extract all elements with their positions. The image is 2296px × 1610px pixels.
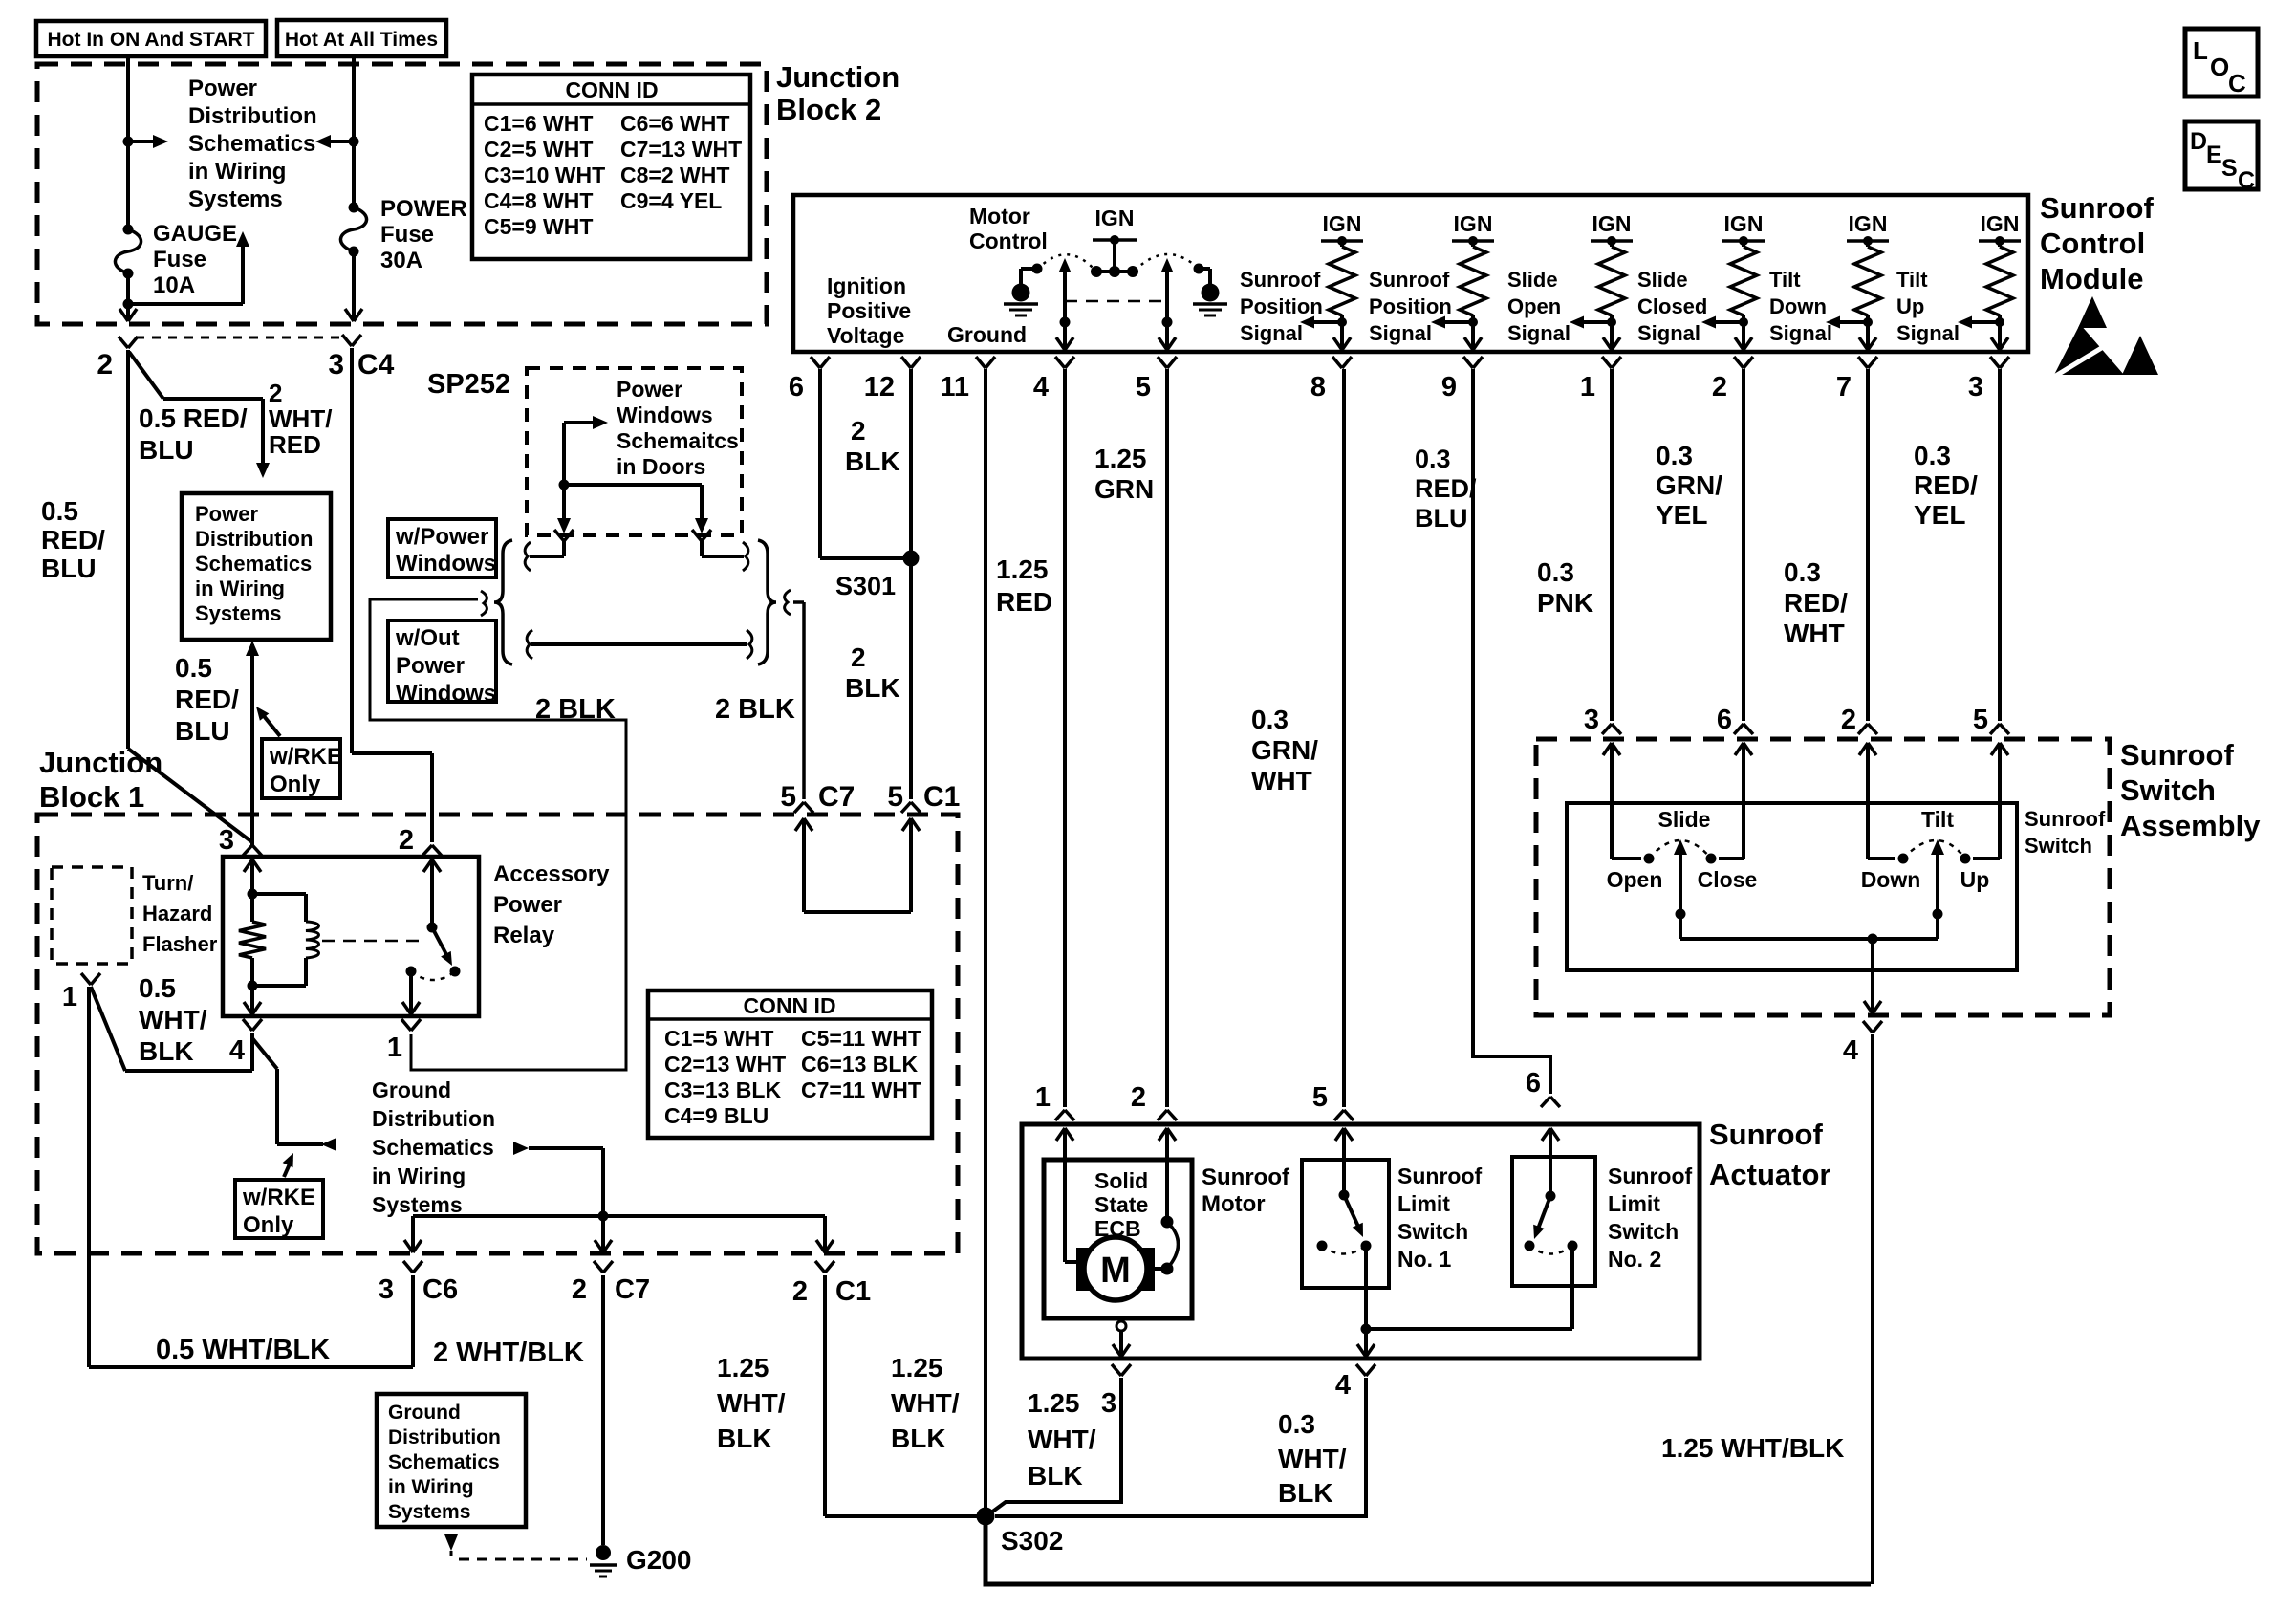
svg-text:WHT/: WHT/ (1028, 1425, 1096, 1454)
svg-text:Ground: Ground (388, 1402, 461, 1424)
svg-text:SP252: SP252 (427, 369, 510, 400)
svg-text:Windows: Windows (617, 402, 713, 427)
svg-text:Ignition: Ignition (827, 273, 906, 298)
svg-text:2: 2 (1841, 705, 1856, 735)
svg-text:Switch: Switch (2120, 773, 2216, 807)
svg-text:w/Power: w/Power (395, 524, 488, 550)
svg-text:BLK: BLK (1028, 1461, 1083, 1490)
svg-text:Fuse: Fuse (153, 247, 206, 272)
svg-text:C8=2 WHT: C8=2 WHT (620, 163, 729, 187)
svg-text:C7=13 WHT: C7=13 WHT (620, 137, 742, 162)
svg-text:1: 1 (1035, 1082, 1051, 1113)
svg-text:Schematics: Schematics (195, 552, 312, 576)
svg-text:C2=13 WHT: C2=13 WHT (664, 1052, 786, 1077)
svg-text:State: State (1094, 1192, 1148, 1217)
svg-text:Positive: Positive (827, 298, 911, 323)
svg-text:BLK: BLK (845, 673, 900, 703)
svg-text:Systems: Systems (372, 1192, 463, 1217)
svg-text:C1=5 WHT: C1=5 WHT (664, 1026, 773, 1051)
svg-text:Sunroof: Sunroof (2025, 807, 2106, 831)
svg-text:4: 4 (1843, 1035, 1858, 1066)
svg-text:WHT/: WHT/ (717, 1388, 786, 1418)
svg-text:2: 2 (792, 1276, 808, 1307)
svg-text:12: 12 (864, 372, 895, 402)
svg-text:C: C (2228, 69, 2246, 98)
svg-text:6: 6 (1526, 1068, 1541, 1099)
svg-text:Up: Up (1896, 294, 1924, 318)
svg-text:2: 2 (851, 642, 866, 672)
svg-text:YEL: YEL (1656, 500, 1707, 530)
svg-text:Slide: Slide (1637, 268, 1688, 292)
svg-text:0.3: 0.3 (1251, 705, 1289, 734)
svg-text:WHT/: WHT/ (269, 404, 332, 433)
svg-text:1: 1 (387, 1033, 402, 1063)
svg-text:Down: Down (1769, 294, 1827, 318)
svg-text:Only: Only (243, 1212, 294, 1238)
svg-text:Ground: Ground (947, 322, 1027, 347)
svg-text:0.3: 0.3 (1914, 441, 1951, 470)
svg-text:IGN: IGN (1454, 211, 1493, 236)
svg-text:WHT: WHT (1784, 619, 1845, 648)
svg-text:w/RKE: w/RKE (242, 1185, 315, 1210)
svg-text:RED/: RED/ (1784, 588, 1848, 618)
svg-text:Slide: Slide (1507, 268, 1558, 292)
svg-text:Open: Open (1607, 867, 1663, 892)
svg-text:Schematics: Schematics (188, 131, 315, 157)
svg-text:BLU: BLU (139, 435, 194, 465)
svg-text:5: 5 (1312, 1082, 1328, 1113)
svg-text:Systems: Systems (188, 186, 283, 212)
svg-text:Switch: Switch (1608, 1219, 1679, 1244)
svg-text:9: 9 (1441, 372, 1457, 402)
svg-text:Closed: Closed (1637, 294, 1707, 318)
svg-text:1.25: 1.25 (1094, 444, 1147, 473)
svg-text:0.5: 0.5 (41, 496, 78, 526)
svg-text:GRN/: GRN/ (1656, 470, 1722, 500)
svg-text:D: D (2190, 128, 2207, 155)
svg-text:1.25: 1.25 (717, 1353, 769, 1382)
svg-text:w/RKE: w/RKE (269, 744, 342, 770)
svg-text:Distribution: Distribution (188, 103, 317, 129)
svg-text:1.25: 1.25 (1028, 1388, 1080, 1418)
svg-text:Sunroof: Sunroof (1397, 1164, 1482, 1188)
svg-text:6: 6 (789, 372, 804, 402)
svg-text:Sunroof: Sunroof (1369, 268, 1450, 292)
svg-text:BLU: BLU (1415, 504, 1468, 533)
svg-text:3: 3 (328, 349, 344, 381)
svg-text:in Doors: in Doors (617, 454, 705, 479)
svg-text:IGN: IGN (1724, 211, 1764, 236)
svg-text:in Wiring: in Wiring (372, 1164, 466, 1188)
svg-text:C7: C7 (615, 1274, 650, 1305)
svg-text:5: 5 (780, 781, 796, 813)
svg-text:C1: C1 (835, 1276, 871, 1307)
svg-text:Switch: Switch (1397, 1219, 1468, 1244)
svg-text:Signal: Signal (1896, 321, 1960, 345)
svg-text:Only: Only (270, 772, 321, 797)
svg-text:Schematics: Schematics (388, 1451, 500, 1473)
svg-text:Tilt: Tilt (1769, 268, 1801, 292)
svg-text:IGN: IGN (1095, 206, 1135, 230)
svg-text:2: 2 (97, 349, 113, 381)
svg-text:Schemaitcs: Schemaitcs (617, 428, 739, 453)
svg-text:4: 4 (1335, 1370, 1351, 1401)
svg-text:IGN: IGN (1981, 211, 2020, 236)
svg-text:Signal: Signal (1507, 321, 1570, 345)
svg-text:3: 3 (1968, 372, 1983, 402)
svg-text:Module: Module (2040, 262, 2144, 295)
svg-text:C7=11 WHT: C7=11 WHT (801, 1077, 921, 1102)
svg-text:IGN: IGN (1849, 211, 1888, 236)
svg-text:GRN/: GRN/ (1251, 735, 1318, 765)
svg-text:Distribution: Distribution (372, 1106, 495, 1131)
svg-text:Power: Power (396, 653, 465, 679)
svg-text:Position: Position (1369, 294, 1452, 318)
svg-text:C5=11 WHT: C5=11 WHT (801, 1026, 921, 1051)
svg-text:C6: C6 (422, 1274, 458, 1305)
svg-text:WHT: WHT (1251, 766, 1312, 795)
svg-text:Hazard: Hazard (142, 902, 212, 925)
svg-text:in Wiring: in Wiring (195, 577, 285, 600)
svg-text:IGN: IGN (1592, 211, 1632, 236)
svg-text:Limit: Limit (1397, 1191, 1450, 1216)
svg-text:Tilt: Tilt (1921, 807, 1954, 832)
svg-text:Signal: Signal (1637, 321, 1700, 345)
svg-text:Power: Power (195, 502, 258, 526)
svg-text:RED: RED (996, 587, 1052, 617)
svg-text:0.3: 0.3 (1537, 557, 1574, 587)
svg-text:C: C (2238, 167, 2255, 194)
svg-text:Power: Power (617, 377, 682, 402)
svg-text:RED/: RED/ (1415, 474, 1477, 503)
svg-text:Sunroof: Sunroof (1608, 1164, 1692, 1188)
svg-text:0.3: 0.3 (1784, 557, 1821, 587)
svg-text:3: 3 (1101, 1388, 1116, 1419)
svg-text:BLU: BLU (175, 716, 230, 746)
svg-text:Close: Close (1698, 867, 1758, 892)
svg-text:3: 3 (219, 825, 234, 856)
svg-text:2: 2 (572, 1274, 587, 1305)
svg-text:Signal: Signal (1769, 321, 1832, 345)
svg-text:6: 6 (1717, 705, 1732, 735)
svg-text:C4=8 WHT: C4=8 WHT (484, 188, 593, 213)
svg-text:Open: Open (1507, 294, 1561, 318)
svg-text:Hot At All Times: Hot At All Times (285, 29, 438, 51)
svg-text:GRN: GRN (1094, 474, 1154, 504)
svg-text:Windows: Windows (396, 681, 496, 707)
svg-text:0.3: 0.3 (1415, 445, 1451, 473)
svg-text:Distribution: Distribution (195, 527, 313, 551)
svg-text:0.5: 0.5 (175, 653, 212, 683)
svg-text:C5=9 WHT: C5=9 WHT (484, 214, 593, 239)
svg-text:S: S (2221, 155, 2238, 182)
svg-text:BLK: BLK (845, 446, 900, 476)
svg-text:Distribution: Distribution (388, 1426, 501, 1448)
svg-text:1.25 WHT/BLK: 1.25 WHT/BLK (1661, 1433, 1844, 1463)
svg-text:Position: Position (1240, 294, 1323, 318)
svg-text:O: O (2210, 53, 2229, 81)
svg-text:C7: C7 (818, 781, 855, 813)
svg-text:S302: S302 (1001, 1526, 1063, 1556)
svg-text:YEL: YEL (1914, 500, 1965, 530)
svg-text:Actuator: Actuator (1709, 1158, 1830, 1191)
svg-text:BLK: BLK (139, 1036, 194, 1066)
svg-text:Windows: Windows (396, 551, 496, 577)
svg-text:Up: Up (1960, 867, 1990, 892)
svg-text:0.3: 0.3 (1278, 1409, 1315, 1439)
svg-text:RED/: RED/ (175, 685, 239, 714)
svg-text:GAUGE: GAUGE (153, 221, 237, 247)
svg-text:C6=13 BLK: C6=13 BLK (801, 1052, 918, 1077)
svg-text:3: 3 (1584, 705, 1599, 735)
svg-text:4: 4 (229, 1035, 245, 1066)
svg-text:0.5: 0.5 (139, 973, 176, 1003)
svg-text:Signal: Signal (1240, 321, 1303, 345)
svg-text:2: 2 (399, 825, 414, 856)
svg-text:Sunroof: Sunroof (2040, 191, 2154, 225)
svg-text:WHT/: WHT/ (1278, 1444, 1347, 1473)
svg-text:Switch: Switch (2025, 834, 2092, 858)
svg-text:C4: C4 (357, 349, 395, 381)
svg-text:2: 2 (269, 379, 282, 407)
svg-text:RED: RED (269, 430, 321, 459)
svg-text:Junction: Junction (39, 746, 162, 779)
svg-text:2: 2 (1712, 372, 1727, 402)
svg-text:1.25: 1.25 (891, 1353, 943, 1382)
svg-text:30A: 30A (380, 248, 422, 273)
svg-text:Hot In ON And START: Hot In ON And START (48, 29, 255, 51)
svg-text:Motor: Motor (969, 204, 1030, 228)
svg-text:in Wiring: in Wiring (388, 1476, 474, 1498)
svg-text:IGN: IGN (1323, 211, 1362, 236)
svg-text:C1=6 WHT: C1=6 WHT (484, 111, 593, 136)
svg-text:2: 2 (851, 416, 866, 446)
svg-text:Ground: Ground (372, 1077, 451, 1102)
svg-text:RED/: RED/ (1914, 470, 1978, 500)
svg-text:5: 5 (1136, 372, 1151, 402)
svg-text:Signal: Signal (1369, 321, 1432, 345)
svg-text:C1: C1 (923, 781, 960, 813)
svg-text:Motor: Motor (1202, 1191, 1266, 1217)
svg-text:BLK: BLK (1278, 1478, 1333, 1508)
svg-text:Block 1: Block 1 (39, 780, 144, 814)
svg-text:BLK: BLK (717, 1424, 772, 1453)
svg-text:Sunroof: Sunroof (1709, 1118, 1823, 1151)
svg-text:Voltage: Voltage (827, 323, 904, 348)
svg-text:CONN ID: CONN ID (743, 993, 835, 1018)
svg-text:C3=13 BLK: C3=13 BLK (664, 1077, 781, 1102)
svg-text:Sunroof: Sunroof (1240, 268, 1321, 292)
svg-text:Sunroof: Sunroof (1202, 1164, 1290, 1190)
svg-text:Tilt: Tilt (1896, 268, 1928, 292)
svg-text:Block 2: Block 2 (776, 93, 881, 126)
svg-text:8: 8 (1310, 372, 1326, 402)
svg-text:Turn/: Turn/ (142, 871, 193, 895)
svg-text:WHT/: WHT/ (139, 1005, 207, 1034)
svg-text:2 BLK: 2 BLK (535, 694, 616, 725)
svg-text:in Wiring: in Wiring (188, 159, 286, 185)
svg-text:7: 7 (1836, 372, 1852, 402)
svg-text:WHT/: WHT/ (891, 1388, 960, 1418)
svg-text:C4=9 BLU: C4=9 BLU (664, 1103, 769, 1128)
svg-text:Junction: Junction (776, 60, 899, 94)
svg-text:Slide: Slide (1658, 807, 1711, 832)
svg-text:Systems: Systems (388, 1501, 470, 1523)
svg-text:E: E (2206, 141, 2222, 168)
svg-text:5: 5 (887, 781, 903, 813)
svg-text:1: 1 (62, 982, 77, 1012)
svg-text:G200: G200 (626, 1545, 692, 1575)
svg-text:4: 4 (1033, 372, 1049, 402)
svg-text:Solid: Solid (1094, 1168, 1148, 1193)
svg-text:Fuse: Fuse (380, 222, 434, 248)
svg-text:Control: Control (969, 228, 1048, 253)
svg-text:1: 1 (1580, 372, 1595, 402)
svg-text:10A: 10A (153, 272, 195, 298)
svg-text:11: 11 (940, 372, 969, 402)
svg-text:3: 3 (379, 1274, 394, 1305)
svg-text:Sunroof: Sunroof (2120, 738, 2234, 772)
svg-text:2 WHT/BLK: 2 WHT/BLK (433, 1338, 584, 1368)
svg-text:BLK: BLK (891, 1424, 946, 1453)
svg-text:w/Out: w/Out (395, 625, 460, 651)
svg-text:C9=4 YEL: C9=4 YEL (620, 188, 722, 213)
svg-text:C2=5 WHT: C2=5 WHT (484, 137, 593, 162)
svg-text:2 BLK: 2 BLK (715, 694, 795, 725)
svg-text:Control: Control (2040, 227, 2145, 260)
svg-text:Systems: Systems (195, 601, 282, 625)
svg-text:S301: S301 (835, 572, 896, 600)
svg-text:POWER: POWER (380, 196, 467, 222)
svg-text:Accessory: Accessory (493, 861, 610, 887)
svg-text:Limit: Limit (1608, 1191, 1660, 1216)
svg-text:0.3: 0.3 (1656, 441, 1693, 470)
svg-text:1.25: 1.25 (996, 555, 1049, 584)
svg-text:Flasher: Flasher (142, 932, 218, 956)
svg-text:Power: Power (188, 76, 257, 101)
svg-text:L: L (2193, 36, 2208, 65)
svg-text:0.5 WHT/BLK: 0.5 WHT/BLK (156, 1335, 330, 1365)
svg-text:5: 5 (1973, 705, 1988, 735)
svg-text:Power: Power (493, 892, 562, 918)
svg-text:M: M (1100, 1251, 1131, 1291)
svg-text:2: 2 (1131, 1082, 1146, 1113)
svg-text:CONN ID: CONN ID (565, 77, 658, 102)
svg-text:Schematics: Schematics (372, 1135, 494, 1160)
svg-text:No. 1: No. 1 (1397, 1247, 1451, 1272)
svg-text:Assembly: Assembly (2120, 809, 2261, 842)
svg-text:C6=6 WHT: C6=6 WHT (620, 111, 729, 136)
svg-text:C3=10 WHT: C3=10 WHT (484, 163, 605, 187)
svg-text:BLU: BLU (41, 554, 97, 583)
svg-text:0.5 RED/: 0.5 RED/ (139, 403, 248, 433)
svg-text:RED/: RED/ (41, 525, 105, 555)
svg-text:Relay: Relay (493, 923, 555, 948)
svg-text:Down: Down (1861, 867, 1921, 892)
svg-text:No. 2: No. 2 (1608, 1247, 1661, 1272)
svg-text:PNK: PNK (1537, 588, 1593, 618)
